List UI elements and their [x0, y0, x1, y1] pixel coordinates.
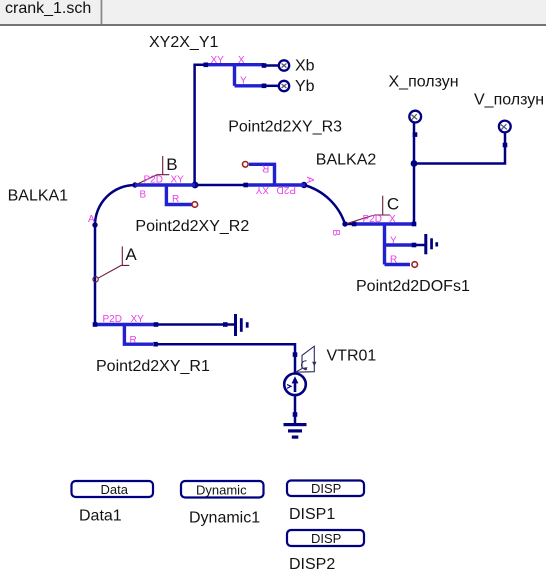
svg-text:crank_1.sch: crank_1.sch — [5, 0, 91, 17]
svg-text:R: R — [130, 335, 137, 346]
svg-text:Y: Y — [390, 236, 397, 247]
svg-text:BALKA1: BALKA1 — [8, 188, 69, 205]
svg-text:DISP1: DISP1 — [289, 506, 335, 523]
svg-text:A: A — [88, 214, 95, 225]
svg-text:B: B — [330, 229, 341, 236]
svg-text:XY: XY — [171, 175, 185, 186]
svg-text:Point2d2DOFs1: Point2d2DOFs1 — [356, 278, 470, 295]
svg-text:Point2d2XY_R1: Point2d2XY_R1 — [96, 358, 210, 375]
svg-text:Point2d2XY_R2: Point2d2XY_R2 — [135, 218, 249, 235]
svg-text:X: X — [238, 55, 245, 66]
svg-text:R: R — [262, 163, 269, 174]
svg-text:R: R — [172, 194, 179, 205]
svg-text:A: A — [304, 177, 315, 184]
svg-text:Dynamic1: Dynamic1 — [189, 509, 260, 526]
svg-text:P2D: P2D — [277, 184, 296, 195]
svg-text:DISP2: DISP2 — [289, 556, 335, 573]
svg-text:R: R — [390, 255, 397, 266]
svg-text:BALKA2: BALKA2 — [316, 152, 377, 169]
svg-text:Xb: Xb — [295, 57, 315, 74]
svg-text:P2D: P2D — [103, 314, 122, 325]
svg-text:Point2d2XY_R3: Point2d2XY_R3 — [228, 118, 342, 135]
svg-text:DISP: DISP — [311, 531, 341, 546]
svg-text:Yb: Yb — [295, 78, 315, 95]
svg-text:VTR01: VTR01 — [327, 347, 377, 364]
svg-text:XY: XY — [211, 55, 225, 66]
svg-text:XY: XY — [255, 184, 269, 195]
svg-text:Dynamic: Dynamic — [196, 483, 247, 498]
svg-text:P2D: P2D — [144, 175, 163, 186]
svg-text:XY2X_Y1: XY2X_Y1 — [149, 34, 218, 51]
svg-text:X_ползун: X_ползун — [389, 74, 459, 91]
svg-text:C: C — [387, 195, 399, 214]
svg-text:P2D: P2D — [363, 214, 382, 225]
svg-text:Data: Data — [101, 482, 129, 497]
svg-text:B: B — [166, 155, 177, 174]
svg-text:DISP: DISP — [311, 481, 341, 496]
svg-text:V_ползун: V_ползун — [474, 92, 544, 109]
svg-text:Data1: Data1 — [79, 508, 122, 525]
svg-text:X: X — [389, 214, 396, 225]
svg-text:XY: XY — [131, 314, 145, 325]
svg-text:A: A — [125, 245, 137, 264]
svg-text:B: B — [140, 190, 147, 201]
svg-text:Y: Y — [240, 76, 247, 87]
